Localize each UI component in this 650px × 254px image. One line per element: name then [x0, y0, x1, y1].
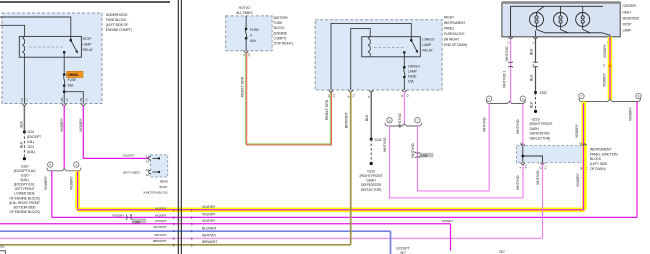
svg-text:EXCEPT: EXCEPT	[397, 247, 411, 251]
svg-text:J123: J123	[27, 145, 34, 149]
junction block pin 4 bottom	[521, 163, 524, 165]
svg-text:VIO/GRY: VIO/GRY	[155, 213, 167, 217]
svg-text:BLK: BLK	[530, 74, 534, 81]
wire: branch to pin M1	[64, 92, 83, 104]
svg-text:BLK: BLK	[530, 101, 534, 108]
panel divider double line	[177, 0, 179, 254]
relay K1 switch common node	[70, 39, 73, 42]
svg-text:4: 4	[191, 230, 193, 234]
svg-text:6: 6	[191, 243, 193, 247]
svg-text:5: 5	[191, 237, 193, 241]
wire BLK dashed to ground G219 (right)	[535, 93, 537, 112]
svg-text:RED/LT GRN: RED/LT GRN	[241, 76, 245, 97]
svg-text:FUSE BLOCK: FUSE BLOCK	[444, 32, 465, 36]
wire: relay coil bottom to pin F2	[23, 57, 25, 103]
svg-text:LAMP: LAMP	[408, 69, 418, 73]
svg-text:WHT/VIO: WHT/VIO	[536, 170, 540, 185]
svg-text:X5: X5	[84, 98, 88, 102]
svg-text:BLK: BLK	[530, 48, 534, 55]
svg-text:(RIGHT FRONT: (RIGHT FRONT	[530, 122, 554, 126]
svg-text:X2: X2	[352, 94, 356, 98]
svg-text:VIO/GRY: VIO/GRY	[202, 219, 216, 223]
svg-text:DASH: DASH	[530, 127, 540, 131]
svg-text:(EXCEPT 6.6L): (EXCEPT 6.6L)	[14, 169, 36, 173]
wire WHT/VIO cavity 7 down through C305 and east	[418, 126, 490, 191]
svg-text:LAMP: LAMP	[422, 43, 432, 47]
svg-text:WHT/VIO: WHT/VIO	[516, 175, 520, 190]
svg-text:COMPT): COMPT)	[274, 37, 287, 41]
junction block internal wiring	[522, 146, 524, 163]
svg-text:BLOCK: BLOCK	[274, 26, 286, 30]
wire 3 VIO/GRY horizontal	[0, 223, 451, 225]
svg-text:(ENGINE: (ENGINE	[274, 31, 288, 35]
svg-text:MOUNTED: MOUNTED	[623, 16, 640, 20]
svg-text:DEFROSTER: DEFROSTER	[530, 132, 551, 136]
junction block pin 17 bottom	[541, 163, 544, 165]
pin 13 of rear body junction block	[149, 157, 151, 161]
svg-text:OF DASH): OF DASH)	[590, 167, 605, 171]
svg-text:2: 2	[173, 216, 175, 220]
rear body junction block (dashed box)	[151, 155, 168, 177]
wire VIO/GRY pin M1 to rear body junction block	[83, 105, 149, 158]
cut-off component box bottom left corner	[0, 251, 6, 254]
relay K2 coil	[368, 37, 370, 57]
wire BLK lamp pin K down	[535, 39, 537, 63]
cavity 7 marker (lamp splice)	[579, 93, 584, 98]
highlighted wire: lamp splice cavity to IP junction block pin 18	[581, 102, 586, 146]
svg-text:DEFROSTER: DEFROSTER	[361, 183, 382, 187]
svg-text:VIO/GRY: VIO/GRY	[79, 117, 83, 132]
inline connector C305 on wire 2 (left panel)	[126, 215, 132, 220]
svg-text:INSTRUMENT: INSTRUMENT	[444, 21, 466, 25]
wire WHT/VIO pin 11 to cargo splice bracket	[403, 92, 405, 124]
svg-text:X1: X1	[25, 98, 29, 102]
wire BLK dashed to ground G219 (left)	[370, 139, 372, 163]
svg-text:J332: J332	[540, 91, 547, 95]
highlighted wire VIO/GRY lamp pin E to lamp splice	[608, 37, 613, 100]
wire: pin 6 to cargo lamp relay coil	[351, 28, 371, 90]
svg-text:15A: 15A	[68, 83, 75, 87]
pin 11 of IP fuse block	[403, 90, 407, 92]
fuse F2 CARGO LAMP 15A symbol	[403, 66, 406, 69]
wire WHT/VIO from CHMSL splice to junction block top pin	[522, 104, 524, 146]
svg-text:1: 1	[191, 208, 193, 212]
svg-text:PANEL JUNCTION: PANEL JUNCTION	[590, 152, 618, 156]
junction block pin 8 top	[521, 144, 524, 146]
svg-text:11: 11	[400, 94, 404, 97]
wire: cavity 5 stub down to wire 2	[51, 171, 53, 218]
svg-text:4: 4	[173, 230, 175, 234]
wire VIO/GRY pin M6 to splice bracket	[63, 105, 65, 167]
svg-text:JUNCTION BLOCK: JUNCTION BLOCK	[143, 190, 169, 194]
svg-text:VIO/GRY: VIO/GRY	[603, 43, 607, 58]
svg-text:VIO/GRY: VIO/GRY	[575, 123, 579, 138]
svg-text:6.6L): 6.6L)	[27, 140, 34, 144]
svg-text:15: 15	[146, 168, 150, 172]
svg-text:LOWER SIDE: LOWER SIDE	[14, 192, 35, 196]
svg-text:(IN RIGHT: (IN RIGHT	[444, 38, 460, 42]
svg-text:VIO/GRY: VIO/GRY	[123, 154, 135, 158]
lamp pin E	[608, 37, 612, 39]
svg-text:(LEFT SIDE OF: (LEFT SIDE OF	[106, 23, 128, 27]
pin M6 of underhood fuse block	[62, 104, 66, 106]
fuse F9 60A symbol	[245, 16, 247, 29]
relay K2 internal dashed link	[374, 46, 405, 48]
wire WHT/VIO junction block pin 17 down to wire 5	[542, 163, 544, 239]
svg-text:BRN/WHT: BRN/WHT	[202, 240, 218, 244]
svg-text:BODY: BODY	[160, 185, 168, 189]
svg-text:(6.6L): (6.6L)	[20, 178, 28, 182]
junction block pin 30 bottom	[583, 163, 586, 165]
CHMSL splice bracket	[487, 100, 526, 103]
wire: relay K2 contact to cargo lamp fuse	[403, 52, 405, 67]
svg-text:BATTERY: BATTERY	[274, 16, 289, 20]
wire: CHMSL fuse to pin M6	[63, 86, 65, 104]
svg-text:HOT AT: HOT AT	[239, 6, 251, 10]
svg-text:60A: 60A	[250, 39, 257, 43]
svg-text:WHT/VIO 1: WHT/VIO 1	[503, 71, 507, 88]
bulb 1	[530, 13, 544, 27]
svg-text:VIO/GRY: VIO/GRY	[576, 172, 580, 187]
svg-text:3: 3	[173, 222, 175, 226]
cargo splice bracket	[385, 123, 422, 126]
svg-text:FUSE: FUSE	[250, 28, 259, 32]
svg-text:5: 5	[173, 237, 175, 241]
svg-text:BLOCK: BLOCK	[590, 157, 602, 161]
svg-text:RELAY: RELAY	[83, 48, 94, 52]
bulb 3	[576, 13, 590, 27]
svg-text:UNDERHOOD: UNDERHOOD	[106, 13, 128, 17]
trace direction arrow on VIO/GRY	[608, 61, 612, 66]
svg-text:BOTTOM SIDE: BOTTOM SIDE	[13, 205, 36, 209]
node: fuse output branch	[63, 90, 66, 93]
svg-text:(6.6L: RIGHT FRONT: (6.6L: RIGHT FRONT	[9, 201, 41, 205]
splice bracket under CHMSL fuse output	[47, 168, 81, 171]
svg-text:15A: 15A	[408, 79, 415, 83]
svg-text:FUSE: FUSE	[68, 78, 77, 82]
wire BLK dashed J124 to ground	[23, 132, 25, 159]
svg-text:OF ENGINE BLOCK): OF ENGINE BLOCK)	[9, 196, 39, 200]
svg-text:INSTRUMENT: INSTRUMENT	[590, 147, 612, 151]
svg-text:13: 13	[146, 154, 150, 158]
battery fuse block (dashed box)	[226, 16, 272, 51]
svg-text:BRN/WHT: BRN/WHT	[345, 112, 349, 128]
svg-text:ENGINE COMPT): ENGINE COMPT)	[106, 28, 132, 32]
svg-text:X1: X1	[544, 166, 548, 170]
svg-text:M6: M6	[60, 97, 64, 101]
svg-text:(LEFT SIDE: (LEFT SIDE	[590, 162, 608, 166]
svg-text:CARGO: CARGO	[408, 64, 420, 68]
wire BRN/WHT pin 6 down to wire 6	[350, 92, 352, 245]
svg-text:X2: X2	[405, 94, 409, 98]
wire: pin 21 feed to cargo lamp relay switch	[331, 23, 411, 90]
fuse F1 CHMSL highlight label	[67, 71, 84, 77]
pin M1 of underhood fuse block	[81, 104, 85, 106]
pin 15 of rear body junction block (not used)	[149, 170, 151, 174]
svg-text:6: 6	[173, 243, 175, 247]
svg-text:K: K	[531, 42, 535, 44]
svg-text:END OF DASH): END OF DASH)	[444, 43, 467, 47]
relay K1 STOP LAMP RELAY box	[19, 36, 81, 57]
svg-text:3: 3	[191, 222, 193, 226]
bulb 2	[554, 13, 568, 27]
svg-text:M1: M1	[79, 97, 83, 101]
svg-text:FUSE: FUSE	[274, 21, 283, 25]
svg-text:RELAY: RELAY	[422, 48, 433, 52]
underhood fuse block (dashed box)	[2, 13, 102, 104]
svg-text:REAR: REAR	[160, 180, 169, 184]
svg-text:G110: G110	[21, 164, 29, 168]
svg-text:VIO/GRY: VIO/GRY	[155, 219, 167, 223]
wire 3 VIO/GRY drop (SLT)	[450, 224, 452, 251]
rear body junction block internal stubs	[152, 157, 159, 159]
svg-text:VIO/GRY: VIO/GRY	[202, 205, 216, 209]
cavity 7 marker (cargo splice)	[415, 118, 420, 123]
svg-text:21: 21	[327, 94, 331, 98]
cavity 8 marker (cargo splice)	[387, 118, 392, 123]
svg-text:CHMSL: CHMSL	[68, 73, 79, 77]
svg-text:X2: X2	[65, 98, 69, 102]
pin 5 of IP fuse block	[369, 90, 373, 92]
lamp pin D	[509, 37, 513, 39]
wire VIO/GRY lamp splice cavity 6 down to wire 2	[636, 102, 638, 218]
svg-text:BRN/WHT: BRN/WHT	[153, 239, 167, 243]
wire 5 WHT/VIO horizontal	[0, 237, 543, 239]
svg-text:PANEL: PANEL	[444, 27, 455, 31]
wire 6 BRN/WHT horizontal	[0, 244, 351, 246]
svg-text:VIO/GRY: VIO/GRY	[155, 206, 167, 210]
pin F2 of underhood fuse block	[23, 104, 27, 106]
svg-text:FUSE BLOCK: FUSE BLOCK	[106, 18, 127, 22]
relay K1 coil	[23, 36, 25, 57]
instrument panel junction block (dashed box)	[517, 146, 585, 163]
wire BLK to J332	[535, 67, 537, 93]
svg-text:WHT/VIO: WHT/VIO	[505, 46, 509, 61]
cavity 6 marker (CHMSL splice)	[520, 96, 525, 101]
wire WHT/VIO CHMSL splice cavity down to horizontal link	[488, 104, 490, 191]
relay K1 internal dashed link	[29, 46, 63, 48]
svg-text:RIGHT: RIGHT	[444, 16, 455, 20]
svg-text:X3: X3	[524, 165, 528, 169]
svg-text:VIO/GRY: VIO/GRY	[202, 213, 216, 217]
svg-text:(EXCEPT: (EXCEPT	[27, 135, 42, 139]
svg-text:D: D	[506, 41, 510, 43]
inline connector pin 3 on BLK	[533, 62, 538, 68]
cavity 4 marker	[74, 162, 79, 167]
svg-text:ALL TIMES: ALL TIMES	[236, 11, 253, 15]
wire BLK from pin F2 to J124	[23, 105, 25, 132]
svg-text:18: 18	[579, 141, 583, 145]
svg-text:WHT/VIO: WHT/VIO	[383, 137, 387, 152]
svg-text:BLU/WHT: BLU/WHT	[154, 225, 167, 229]
svg-text:STOP: STOP	[623, 22, 633, 26]
svg-text:J124: J124	[27, 130, 34, 134]
svg-text:RED/LT GRN: RED/LT GRN	[325, 99, 329, 120]
svg-text:VIO/GRY: VIO/GRY	[44, 175, 48, 190]
relay K2 switch blade	[411, 40, 417, 52]
svg-text:DEFLECTOR): DEFLECTOR)	[361, 188, 382, 192]
wire 4 BLU/WHT horizontal	[0, 230, 391, 232]
junction block pass-through of highlighted VIO/GRY	[582, 146, 587, 163]
panel top border line	[0, 1, 170, 3]
svg-text:DEFLECTOR): DEFLECTOR)	[530, 136, 551, 140]
svg-text:G219: G219	[367, 169, 375, 173]
svg-text:OF ENGINE BLOCK): OF ENGINE BLOCK)	[9, 210, 39, 214]
junction block pin 18 top	[583, 144, 586, 146]
svg-text:(TOP RIGHT): (TOP RIGHT)	[274, 42, 293, 46]
svg-text:LAMP: LAMP	[83, 43, 93, 47]
relay K2 switch contact node	[403, 51, 406, 54]
svg-text:WHT/VIO: WHT/VIO	[483, 117, 487, 132]
pin 6 of IP fuse block	[349, 90, 353, 92]
svg-text:FUSE: FUSE	[408, 74, 417, 78]
svg-text:BLK: BLK	[20, 141, 24, 148]
svg-text:17: 17	[538, 166, 542, 170]
wire WHT/VIO cavity 8 down and east to junction block pin 4	[390, 126, 524, 198]
ground G219 (right front dash defroster deflector)	[370, 162, 373, 165]
svg-text:G120: G120	[21, 174, 29, 178]
svg-text:BLK: BLK	[365, 114, 369, 121]
center high mounted stop lamp box	[502, 3, 620, 37]
svg-text:1: 1	[173, 208, 175, 212]
svg-text:C305: C305	[420, 154, 428, 158]
inline connector pin 1 on WHT/VIO	[508, 62, 513, 68]
lamp internal feed bus	[510, 6, 512, 37]
svg-text:STOP: STOP	[83, 37, 93, 41]
svg-text:9: 9	[250, 33, 252, 37]
ground G110 / G120	[23, 157, 26, 160]
pin of battery fuse block	[244, 51, 248, 53]
wire 2 VIO/GRY horizontal	[52, 216, 637, 218]
svg-text:WHT/VIO: WHT/VIO	[516, 119, 520, 134]
svg-text:CENTER: CENTER	[623, 4, 637, 8]
wire RED/LT GRN battery fuse to IP fuse block pin 21	[246, 52, 331, 143]
ground G219 at dash defroster deflector	[534, 110, 537, 113]
svg-text:X6: X6	[247, 53, 251, 57]
svg-text:WHT/VIO: WHT/VIO	[202, 233, 216, 237]
relay K1 switch contact node	[63, 51, 66, 54]
junction J242	[370, 138, 373, 141]
wire 1 VIO/GRY highlighted horizontal	[78, 208, 585, 213]
svg-text:VIO/GRY: VIO/GRY	[441, 219, 453, 223]
junction J124	[23, 130, 26, 133]
wire: relay contact to CHMSL fuse	[63, 52, 65, 74]
highlighted wire: cavity 4 stub down to wire 1	[75, 171, 80, 210]
svg-text:J242: J242	[375, 138, 382, 142]
junction J332	[534, 91, 537, 94]
wire: cargo fuse to pin 11	[403, 77, 405, 90]
wire WHT/VIO lamp pin D to CHMSL splice	[510, 39, 512, 102]
wire BLK pin 5 to J242	[370, 92, 372, 139]
lamp splice bracket	[579, 98, 641, 101]
relay K2 switch common node	[410, 39, 413, 42]
svg-text:VIO/GRY: VIO/GRY	[112, 213, 124, 217]
relay K1 switch blade	[71, 40, 78, 52]
svg-text:VIO/GRY: VIO/GRY	[629, 106, 633, 121]
svg-text:VIO/GRY: VIO/GRY	[60, 117, 64, 132]
right instrument panel fuse block (dashed box)	[315, 20, 442, 90]
lamp pin K	[534, 37, 538, 39]
svg-text:C305: C305	[132, 220, 140, 224]
highlighted wire: junction block pin 30 down to wire 1	[582, 163, 587, 210]
svg-text:WHT/VIO: WHT/VIO	[154, 233, 167, 237]
svg-text:LAMP: LAMP	[623, 28, 633, 32]
cavity 5 marker	[48, 162, 53, 167]
svg-text:DASH: DASH	[366, 179, 376, 183]
svg-text:(NOT USED): (NOT USED)	[123, 170, 140, 174]
svg-text:2: 2	[191, 216, 193, 220]
svg-text:VIO/GRY: VIO/GRY	[70, 175, 74, 190]
svg-text:G219: G219	[532, 118, 540, 122]
svg-text:HIGH: HIGH	[623, 10, 632, 14]
svg-text:VIO/GRY: VIO/GRY	[603, 72, 607, 87]
wire 4 BLU/WHT drop to EXCEPT SLT	[390, 231, 392, 254]
svg-text:X1: X1	[332, 94, 336, 98]
svg-text:LEFT FRONT: LEFT FRONT	[15, 187, 36, 191]
svg-text:BLU/WHT: BLU/WHT	[202, 226, 218, 230]
svg-text:(6.6L): (6.6L)	[27, 150, 35, 154]
pin 21 of IP fuse block	[329, 90, 333, 92]
svg-text:(RIGHT FRONT: (RIGHT FRONT	[360, 174, 384, 178]
fuse F1 CHMSL 15A symbol	[63, 73, 66, 76]
svg-text:BLK: BLK	[20, 120, 24, 127]
svg-text:CARGO: CARGO	[422, 38, 434, 42]
wire: feed to stop lamp relay coil	[0, 25, 25, 36]
cavity 7 marker (CHMSL splice)	[487, 96, 492, 101]
cavity 6 marker (lamp splice)	[636, 93, 641, 98]
lamp internal return bus	[536, 27, 538, 30]
svg-text:(EXCEPT 6.6L:: (EXCEPT 6.6L:	[14, 183, 36, 187]
wire: feed to stop lamp relay switch	[0, 17, 71, 40]
relay K2 CARGO LAMP RELAY box	[362, 37, 421, 57]
inline connector C305 on cavity 7 wire	[415, 152, 420, 158]
